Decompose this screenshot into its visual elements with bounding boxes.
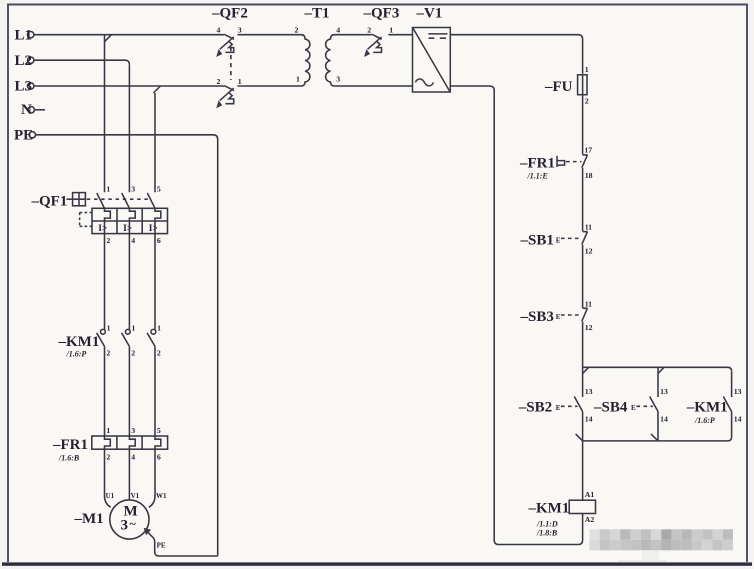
svg-text:3: 3 [131, 184, 135, 193]
svg-text:/1.6:P: /1.6:P [694, 416, 715, 425]
svg-text:4: 4 [131, 236, 135, 245]
svg-text:/1.1:D: /1.1:D [536, 520, 558, 529]
svg-text:1: 1 [106, 426, 110, 435]
svg-text:6: 6 [157, 236, 161, 245]
svg-text:1: 1 [389, 26, 393, 35]
svg-text:1: 1 [106, 184, 110, 193]
svg-text:2: 2 [106, 236, 110, 245]
svg-text:I>: I> [123, 224, 132, 234]
svg-text:1: 1 [107, 324, 111, 333]
svg-text:–FR1: –FR1 [52, 437, 88, 453]
svg-text:2: 2 [157, 349, 161, 358]
svg-text:PE: PE [157, 542, 166, 550]
svg-text:13: 13 [660, 387, 668, 396]
svg-text:11: 11 [585, 223, 592, 232]
svg-text:3: 3 [336, 75, 340, 84]
svg-text:–QF2: –QF2 [211, 6, 248, 22]
svg-text:12: 12 [585, 246, 593, 255]
svg-text:L2: L2 [15, 53, 33, 69]
svg-text:–KM1: –KM1 [58, 334, 100, 350]
svg-text:2: 2 [367, 26, 371, 35]
svg-text:E: E [556, 236, 561, 244]
svg-text:PE: PE [14, 127, 33, 143]
svg-text:N: N [21, 102, 32, 118]
svg-text:–FR1: –FR1 [519, 156, 555, 172]
svg-text:–QF1: –QF1 [31, 193, 68, 209]
svg-text:–V1: –V1 [416, 6, 443, 22]
svg-text:2: 2 [217, 77, 221, 86]
svg-text:1: 1 [132, 324, 136, 333]
svg-text:–T1: –T1 [304, 6, 330, 22]
svg-text:18: 18 [585, 171, 593, 180]
svg-text:1: 1 [296, 75, 300, 84]
svg-text:14: 14 [734, 414, 742, 423]
svg-text:12: 12 [585, 323, 593, 332]
svg-text:3: 3 [121, 518, 129, 534]
svg-text:5: 5 [157, 184, 161, 193]
svg-text:L3: L3 [15, 79, 33, 95]
svg-text:3: 3 [131, 426, 135, 435]
svg-text:/1.8:B: /1.8:B [536, 529, 558, 538]
svg-text:L1: L1 [15, 27, 33, 43]
svg-text:I>: I> [98, 224, 107, 234]
svg-text:E: E [556, 313, 561, 321]
svg-text:–QF3: –QF3 [363, 6, 400, 22]
svg-text:14: 14 [660, 414, 668, 423]
svg-text:–SB1: –SB1 [520, 232, 554, 248]
svg-text:13: 13 [585, 387, 593, 396]
svg-text:17: 17 [584, 146, 592, 155]
svg-text:W1: W1 [156, 492, 167, 500]
svg-text:–FU: –FU [544, 79, 573, 95]
svg-text:6: 6 [157, 452, 161, 461]
svg-text:1: 1 [238, 77, 242, 86]
svg-text:2: 2 [295, 26, 299, 35]
svg-text:–SB2: –SB2 [518, 400, 552, 416]
svg-text:–KM1: –KM1 [686, 400, 728, 416]
svg-text:14: 14 [585, 414, 593, 423]
svg-text:E: E [556, 404, 561, 412]
svg-text:~: ~ [130, 517, 137, 531]
svg-text:E: E [631, 404, 636, 412]
svg-text:/1.6:B: /1.6:B [58, 453, 80, 462]
svg-text:–M1: –M1 [74, 511, 104, 527]
svg-text:3: 3 [238, 26, 242, 35]
svg-text:A2: A2 [585, 515, 595, 524]
svg-text:4: 4 [217, 26, 221, 35]
svg-text:2: 2 [131, 349, 135, 358]
svg-text:2: 2 [585, 96, 589, 105]
svg-text:4: 4 [336, 26, 340, 35]
svg-text:13: 13 [734, 387, 742, 396]
svg-text:–SB3: –SB3 [520, 309, 554, 325]
svg-text:/1.1:E: /1.1:E [527, 171, 548, 180]
svg-text:V1: V1 [131, 492, 140, 500]
svg-text:2: 2 [106, 452, 110, 461]
svg-text:4: 4 [131, 452, 135, 461]
svg-text:5: 5 [157, 426, 161, 435]
svg-text:/1.6:P: /1.6:P [66, 350, 87, 359]
svg-text:11: 11 [585, 299, 592, 308]
svg-text:1: 1 [157, 324, 161, 333]
svg-text:–SB4: –SB4 [593, 400, 628, 416]
svg-text:2: 2 [106, 349, 110, 358]
svg-text:U1: U1 [106, 492, 115, 500]
svg-text:A1: A1 [585, 490, 595, 499]
svg-text:–KM1: –KM1 [528, 500, 570, 516]
svg-text:I>: I> [149, 224, 158, 234]
svg-text:1: 1 [585, 65, 589, 74]
